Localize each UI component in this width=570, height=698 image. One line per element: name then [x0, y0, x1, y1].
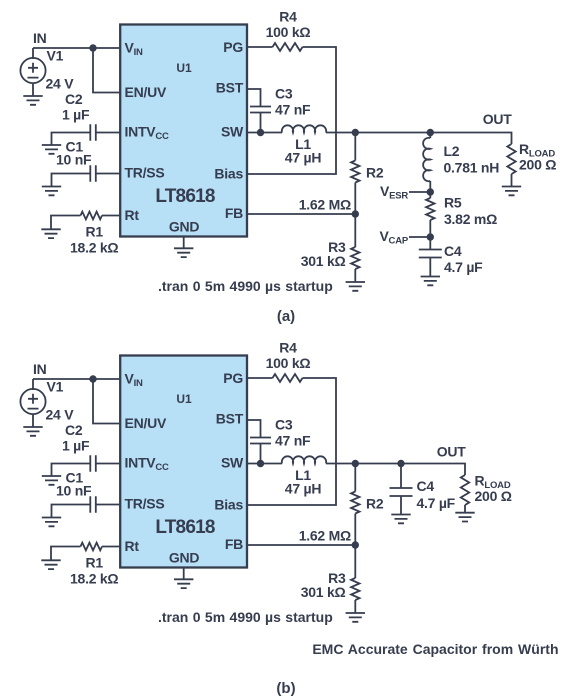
junction C4 branch (b): [397, 460, 404, 467]
ground under C1 (b): [42, 518, 61, 527]
junction VIN/EN (b): [89, 375, 96, 382]
resistor R1 (a): [81, 212, 102, 220]
junction L2 branch (a): [427, 129, 434, 136]
svg-text:100 kΩ: 100 kΩ: [266, 355, 311, 371]
wire R3 to ground (a): [354, 269, 356, 282]
wire junction down to EN/UV (a): [93, 48, 121, 93]
resistor R5 (a): [426, 198, 434, 220]
capacitor C2 (b): [90, 455, 96, 471]
junction FB node (b): [352, 541, 359, 548]
wire R2 to FB node (a): [354, 183, 356, 215]
wire R1 to Rt (b): [102, 546, 121, 548]
ground under C4 (b): [391, 515, 410, 524]
wire V1 bottom (b): [32, 415, 34, 427]
svg-text:TR/SS: TR/SS: [125, 496, 165, 512]
junction R2 top (b): [352, 460, 359, 467]
svg-text:1.62 MΩ: 1.62 MΩ: [299, 197, 351, 213]
wire output rail (b): [326, 464, 465, 476]
svg-text:C4: C4: [417, 478, 435, 494]
svg-text:4.7 µF: 4.7 µF: [417, 495, 456, 511]
wire VESR to R5 (a): [429, 192, 431, 198]
svg-text:1.62 MΩ: 1.62 MΩ: [299, 528, 351, 544]
svg-text:C3: C3: [275, 86, 293, 102]
wire C1 to TR/SS (a): [96, 173, 121, 175]
svg-text:(b): (b): [276, 680, 295, 697]
svg-text:SW: SW: [221, 124, 244, 140]
inductor L2 (a): [423, 138, 430, 181]
svg-text:4.7 µF: 4.7 µF: [444, 259, 483, 275]
wire R1 to Rt (a): [102, 215, 121, 217]
junction FB node (a): [352, 210, 359, 217]
ground under IC (a): [174, 248, 193, 257]
svg-text:301 kΩ: 301 kΩ: [301, 253, 346, 269]
svg-text:SW: SW: [221, 455, 244, 471]
capacitor C3 (b): [250, 438, 271, 444]
wire R1 to ground (b): [51, 547, 81, 561]
svg-text:Rt: Rt: [125, 207, 140, 223]
wire C1 to ground (b): [52, 505, 91, 518]
wire PG to R4 (a): [247, 46, 273, 48]
svg-text:24 V: 24 V: [46, 407, 75, 423]
ground under R1 (a): [41, 229, 60, 238]
svg-text:1 µF: 1 µF: [62, 107, 90, 123]
svg-text:R5: R5: [444, 195, 462, 211]
svg-text:PG: PG: [223, 39, 243, 55]
wire IC GND pin to ground (b): [183, 568, 185, 580]
op-amp regulator IC U1 LT8618 (a): [120, 25, 247, 237]
ground under R1 (b): [41, 560, 60, 569]
svg-text:Bias: Bias: [214, 166, 243, 182]
capacitor C1 (a): [90, 165, 96, 181]
svg-text:18.2 kΩ: 18.2 kΩ: [70, 571, 118, 587]
inductor L1 (b): [282, 456, 326, 463]
inductor L1 (a): [282, 125, 326, 132]
svg-text:VCAP: VCAP: [379, 228, 408, 247]
svg-text:OUT: OUT: [483, 111, 513, 127]
svg-text:.tran 0 5m 4990 µs startup: .tran 0 5m 4990 µs startup: [158, 609, 333, 625]
svg-text:BST: BST: [216, 411, 244, 427]
svg-text:47 µH: 47 µH: [285, 481, 322, 497]
svg-text:200 Ω: 200 Ω: [475, 488, 512, 504]
wire IC GND pin to ground (a): [183, 237, 185, 249]
wire C1 to ground (a): [52, 174, 91, 187]
wire FB node to R3 (a): [354, 214, 356, 247]
wire PG to R4 (b): [247, 377, 273, 379]
resistor R4 (b): [273, 374, 303, 382]
svg-text:OUT: OUT: [437, 444, 467, 460]
svg-text:301 kΩ: 301 kΩ: [301, 584, 346, 600]
svg-text:C2: C2: [65, 91, 83, 107]
svg-text:PG: PG: [223, 370, 243, 386]
svg-text:Rt: Rt: [125, 538, 140, 554]
svg-text:EN/UV: EN/UV: [125, 84, 167, 100]
svg-text:R2: R2: [366, 496, 384, 512]
resistor R2 (b): [351, 492, 359, 514]
wire R1 to ground (a): [51, 216, 81, 230]
wire RLOAD to ground (b): [464, 505, 466, 513]
wire C4 top lead (b): [400, 464, 402, 489]
resistor R1 (b): [81, 543, 102, 551]
svg-text:U1: U1: [176, 392, 192, 406]
wire IN to VIN pin (a): [33, 47, 121, 49]
wire output rail (a): [326, 133, 512, 145]
svg-text:R1: R1: [86, 555, 104, 571]
wire R3 to ground (b): [354, 600, 356, 613]
ground under C2 (b): [42, 476, 61, 485]
wire C2 to ground (a): [52, 133, 91, 146]
wire C4 to ground (b): [400, 496, 402, 515]
wire RLOAD to ground (a): [511, 174, 513, 187]
svg-text:L2: L2: [444, 143, 460, 159]
op-amp regulator IC U1 LT8618 (b): [120, 356, 247, 568]
wire VCAP to C4 (a): [429, 237, 431, 250]
wire V1 bottom (a): [32, 84, 34, 96]
svg-text:EMC Accurate Capacitor from Wü: EMC Accurate Capacitor from Würth: [312, 641, 558, 657]
wire FB to divider (b): [247, 544, 355, 546]
junction VIN/EN (a): [89, 44, 96, 51]
svg-text:R4: R4: [279, 9, 297, 25]
svg-text:V1: V1: [47, 48, 64, 64]
capacitor C1 (b): [90, 496, 96, 512]
svg-text:200 Ω: 200 Ω: [519, 157, 556, 173]
wire junction down to EN/UV (b): [93, 379, 121, 424]
resistor R4 (a): [273, 43, 303, 51]
wire V1 top (b): [32, 379, 34, 390]
capacitor C4 (b): [390, 488, 413, 496]
svg-text:C3: C3: [275, 417, 293, 433]
resistor RLOAD (b): [461, 475, 469, 505]
svg-text:100 kΩ: 100 kΩ: [266, 24, 311, 40]
ground under IC (b): [174, 579, 193, 588]
wire C3 to SW (a): [260, 113, 262, 133]
wire R2 to FB node (b): [354, 514, 356, 546]
svg-text:0.781 nH: 0.781 nH: [444, 160, 500, 176]
svg-text:10 nF: 10 nF: [56, 483, 92, 499]
wire L2 to VESR (a): [429, 181, 431, 192]
svg-text:18.2 kΩ: 18.2 kΩ: [70, 240, 118, 256]
ground under RLOAD (b): [455, 513, 474, 522]
svg-text:Bias: Bias: [214, 497, 243, 513]
wire C2 to INTVcc (b): [96, 463, 121, 465]
svg-text:47 nF: 47 nF: [275, 102, 311, 118]
svg-text:TR/SS: TR/SS: [125, 165, 165, 181]
wire rail to R2 (b): [354, 464, 356, 492]
wire C4 to ground (a): [429, 258, 431, 277]
ground under C4 (a): [421, 277, 440, 286]
wire C2 to INTVcc (a): [96, 132, 121, 134]
wire V1 top (a): [32, 48, 34, 59]
capacitor C2 (a): [90, 124, 96, 140]
wire R4 to Bias rail (b): [247, 378, 336, 505]
svg-text:(a): (a): [277, 308, 295, 325]
junction R2 top (a): [352, 129, 359, 136]
svg-text:VESR: VESR: [380, 183, 408, 202]
wire VESR label lead (a): [409, 191, 430, 193]
ground under V1 (b): [23, 427, 42, 436]
svg-text:GND: GND: [169, 219, 200, 235]
wire SW to L1 (b): [247, 463, 282, 465]
ground under V1 (a): [23, 96, 42, 105]
ground under R3 (b): [346, 613, 365, 622]
capacitor C4 (a): [419, 250, 442, 258]
svg-text:.tran 0 5m 4990 µs startup: .tran 0 5m 4990 µs startup: [158, 278, 333, 294]
resistor R2 (a): [351, 161, 359, 183]
svg-text:R1: R1: [86, 224, 104, 240]
svg-text:1 µF: 1 µF: [62, 438, 90, 454]
wire FB to divider (a): [247, 213, 355, 215]
svg-text:IN: IN: [33, 30, 47, 46]
wire C1 to TR/SS (b): [96, 504, 121, 506]
svg-text:LT8618: LT8618: [155, 186, 215, 207]
svg-text:10 nF: 10 nF: [56, 152, 92, 168]
svg-text:47 µH: 47 µH: [285, 150, 322, 166]
svg-text:47 nF: 47 nF: [275, 433, 311, 449]
ground under C1 (a): [42, 187, 61, 196]
wire R4 to Bias rail (a): [247, 47, 336, 174]
svg-text:BST: BST: [216, 80, 244, 96]
wire C2 to ground (b): [52, 464, 91, 477]
voltage source V1 (a): [20, 58, 45, 83]
svg-text:FB: FB: [225, 536, 243, 552]
wire FB node to R3 (b): [354, 545, 356, 578]
svg-text:R4: R4: [279, 340, 297, 356]
ground under R3 (a): [346, 282, 365, 291]
svg-text:FB: FB: [225, 205, 243, 221]
wire IN to VIN pin (b): [33, 378, 121, 380]
voltage source V1 (b): [20, 389, 45, 414]
svg-text:V1: V1: [47, 379, 64, 395]
svg-text:C2: C2: [65, 422, 83, 438]
svg-text:IN: IN: [33, 361, 47, 377]
wire rail to R2 (a): [354, 133, 356, 161]
wire BST to C3 (b): [247, 420, 261, 438]
svg-text:24 V: 24 V: [46, 76, 75, 92]
resistor R3 (a): [351, 247, 359, 269]
node VESR (a): [427, 188, 434, 195]
svg-text:3.82 mΩ: 3.82 mΩ: [444, 211, 497, 227]
capacitor C3 (a): [250, 107, 271, 113]
junction SW node (b): [257, 460, 264, 467]
wire C3 to SW (b): [260, 444, 262, 464]
svg-text:R2: R2: [366, 165, 384, 181]
wire VCAP label lead (a): [409, 236, 430, 238]
svg-text:C4: C4: [444, 243, 462, 259]
wire L2 top lead (a): [429, 133, 431, 139]
ground under C2 (a): [42, 145, 61, 154]
svg-text:EN/UV: EN/UV: [125, 415, 167, 431]
wire SW to L1 (a): [247, 132, 282, 134]
node VCAP (a): [427, 233, 434, 240]
svg-text:U1: U1: [176, 61, 192, 75]
resistor RLOAD (a): [507, 144, 515, 174]
svg-text:GND: GND: [169, 550, 200, 566]
wire BST to C3 (a): [247, 89, 261, 107]
resistor R3 (b): [351, 578, 359, 600]
junction SW node (a): [257, 129, 264, 136]
wire R5 to VCAP (a): [429, 220, 431, 237]
ground under RLOAD (a): [502, 187, 521, 196]
svg-text:LT8618: LT8618: [155, 517, 215, 538]
